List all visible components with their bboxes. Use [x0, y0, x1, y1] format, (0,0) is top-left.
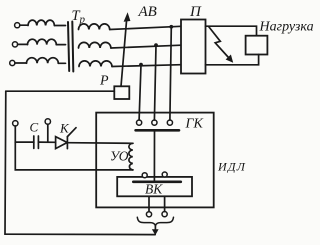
svg-text:АВ: АВ — [138, 4, 157, 20]
rod GK to VK — [153, 132, 155, 181]
wire capacitor to thyristor — [38, 141, 55, 143]
wire from left loop to relay P — [6, 90, 115, 92]
VK bottom terminal left — [146, 212, 151, 217]
wire T2 to primary coil 2 — [18, 43, 28, 45]
under-brace gathering VK terminals — [137, 217, 173, 225]
wire thyristor to UO coil (top line) — [67, 142, 133, 145]
GK fixed contact 2 — [152, 120, 157, 125]
tap wire phase2 to GK contact 2 — [154, 45, 156, 120]
zigzag arrowhead — [226, 55, 234, 63]
transformer Tr secondary coil 3 — [79, 61, 112, 67]
breaker AB arrowhead — [124, 12, 131, 21]
capacitor C plates — [33, 136, 35, 148]
wire coil1 to core — [54, 25, 65, 27]
thyristor K cathode bar — [66, 137, 68, 149]
wire secondary1 to breaker — [110, 26, 181, 29]
wire coil3 to core — [58, 62, 65, 64]
wire P box to load (top) — [206, 26, 257, 36]
tap wire phase1 to GK contact 3 — [170, 27, 171, 120]
svg-text:УО: УО — [110, 149, 129, 164]
junction dot on phase 3 — [139, 63, 143, 67]
terminal T2 (middle input circle) — [12, 42, 17, 47]
GK fixed contact 3 — [167, 120, 172, 125]
terminal C1 (capacitor branch circle) — [13, 121, 18, 126]
transformer Tr primary coil 3 — [27, 58, 59, 64]
VK fixed contact right — [162, 172, 167, 177]
svg-text:ГК: ГК — [185, 117, 204, 132]
wire T1 to primary coil 1 — [20, 24, 28, 26]
junction dot on phase 2 — [154, 43, 158, 47]
wire load to P box (bottom) — [206, 55, 259, 65]
left loop vertical wire — [4, 91, 7, 234]
relay P box — [114, 86, 129, 99]
VK leg wire left — [148, 196, 150, 211]
svg-text:Нагрузка: Нагрузка — [259, 20, 314, 35]
GK moving contact bar — [136, 129, 179, 132]
terminal T1 (top input circle) — [15, 23, 20, 28]
svg-text:К: К — [59, 121, 70, 136]
transformer Tr secondary coil 2 — [79, 42, 111, 48]
contactor action zigzag arrow — [209, 27, 229, 58]
IDL enclosure box — [96, 113, 214, 208]
VK bottom terminal right — [162, 212, 167, 217]
transformer Tr secondary coil 1 — [79, 24, 110, 30]
bottom wire to actuator arrow — [5, 233, 155, 235]
thyristor K gate line — [67, 128, 76, 137]
VK box — [117, 177, 192, 196]
load box (Nagruzka) — [246, 36, 268, 55]
wire T3 to primary coil 3 — [15, 62, 27, 64]
svg-text:С: С — [30, 120, 39, 135]
tap wire phase3 to GK contact 1 — [139, 65, 141, 120]
junction dot on phase 1 — [169, 25, 173, 29]
GK fixed contact 1 — [137, 120, 142, 125]
actuator arrow to bottom wire — [154, 226, 156, 230]
terminal T3 (bottom input circle) — [10, 60, 15, 65]
transformer Tr primary coil 2 — [28, 39, 57, 44]
VK moving contact bar — [133, 181, 181, 184]
svg-text:ВК: ВК — [145, 182, 163, 197]
transformer Tr primary coil 1 — [28, 20, 54, 25]
svg-text:ИДЛ: ИДЛ — [217, 160, 246, 174]
wire secondary3 to contactor — [112, 65, 181, 67]
transformer core (two vertical bars) — [68, 22, 69, 71]
svg-text:П: П — [189, 4, 202, 20]
wire C1 down to UO bottom line — [15, 126, 133, 170]
wire coil2 to core — [56, 44, 65, 46]
thyristor K triangle — [56, 137, 68, 149]
VK leg wire right — [164, 196, 166, 211]
svg-text:Р: Р — [99, 74, 109, 89]
breaker AB actuator line (from relay P up through three phases) — [121, 20, 127, 86]
svg-text:р: р — [79, 14, 86, 26]
wire C2 stub down — [47, 124, 49, 142]
UO coil scalloped right edge — [129, 143, 133, 170]
contactor P box — [181, 20, 206, 74]
capacitor C wire left — [15, 141, 34, 143]
VK fixed contact left — [142, 173, 147, 178]
wire secondary2 to contactor — [111, 45, 181, 48]
terminal C2 circle — [45, 119, 50, 124]
